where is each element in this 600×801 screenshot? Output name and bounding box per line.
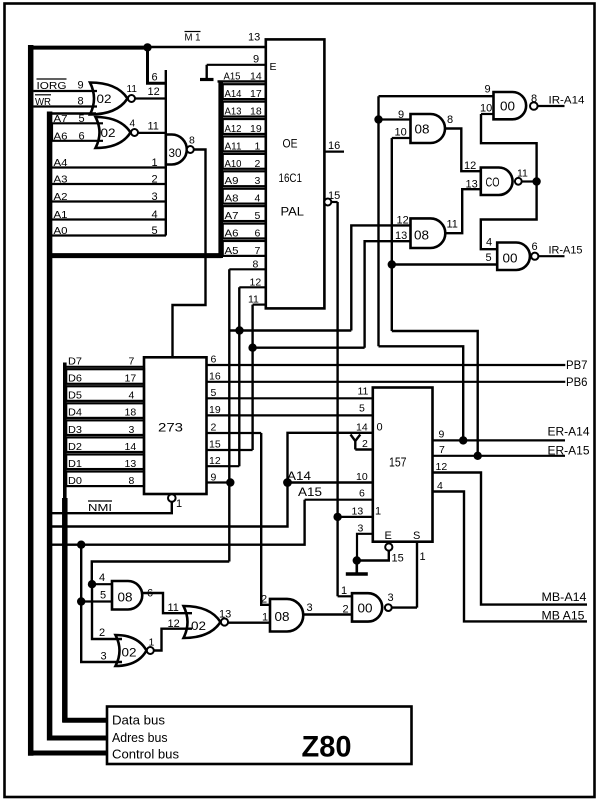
svg-text:A8: A8 (225, 193, 239, 205)
svg-text:9: 9 (253, 54, 259, 66)
wire net-B corner to 08c pin4 (92, 583, 113, 585)
svg-text:08: 08 (118, 590, 133, 605)
svg-text:16C1: 16C1 (279, 171, 303, 185)
wire A14 row to 157 pin10 (288, 481, 374, 483)
svg-text:A0: A0 (54, 225, 68, 237)
svg-text:1: 1 (375, 506, 381, 518)
svg-text:IR-A14: IR-A14 (549, 95, 585, 107)
ground tie on pin9 row (205, 65, 207, 79)
wire PAL11 east leg (253, 347, 365, 349)
wire 273 pin16 / PB6 line (207, 381, 566, 383)
svg-text:9: 9 (78, 80, 84, 92)
wire D7 row line (65, 366, 144, 368)
svg-text:4: 4 (152, 209, 158, 221)
svg-text:02: 02 (122, 646, 137, 660)
svg-text:ER-A14: ER-A14 (548, 425, 590, 439)
ladder row A5 box (223, 241, 266, 256)
svg-text:OE: OE (283, 137, 298, 151)
svg-text:00: 00 (358, 601, 373, 616)
node A15 x 08c.5 junction (77, 541, 85, 549)
wire A7 row top (48, 112, 97, 114)
svg-text:5: 5 (359, 403, 365, 415)
wire 273 pin2 row (207, 432, 262, 434)
svg-text:02: 02 (97, 92, 112, 106)
wire A15 net down to 02c pin3 (81, 602, 122, 663)
svg-text:9: 9 (211, 472, 217, 484)
wire PAL12 vertical (238, 287, 240, 466)
svg-text:10: 10 (356, 471, 368, 483)
svg-text:D7: D7 (68, 356, 82, 368)
wire A0 row (48, 234, 167, 236)
svg-text:08: 08 (414, 228, 429, 243)
nand-gate 00d MB (352, 593, 382, 621)
wire A7A6 left edge (51, 123, 53, 141)
wire 157 pin14 row (288, 433, 374, 483)
and-gate 08b (411, 218, 446, 248)
wire E bubble drop (357, 551, 389, 561)
nor-gate 02d (184, 606, 221, 638)
svg-text:12: 12 (148, 86, 160, 98)
bubble 30 output (187, 146, 194, 153)
svg-text:E: E (385, 530, 392, 542)
svg-text:8: 8 (78, 96, 84, 108)
wire adres-bus vertical (47, 112, 53, 741)
wire 273 pin5 to 157 pin11 (207, 397, 374, 399)
wire PAL pin 8 row (229, 268, 266, 270)
svg-text:D2: D2 (68, 441, 82, 453)
svg-text:273: 273 (158, 421, 183, 435)
svg-text:6: 6 (211, 354, 217, 366)
svg-text:M 1: M 1 (185, 32, 201, 44)
wire 02a output (135, 97, 166, 99)
svg-text:15: 15 (392, 553, 404, 565)
svg-text:12: 12 (436, 461, 448, 473)
svg-text:A13: A13 (225, 106, 242, 118)
bubble 02d output (221, 618, 228, 625)
svg-text:2: 2 (99, 627, 105, 639)
svg-text:18: 18 (125, 407, 137, 419)
wire 273 pin6 / PB7 line (207, 364, 566, 366)
node M1 junction (143, 43, 151, 51)
svg-text:A14: A14 (225, 88, 242, 100)
svg-text:11: 11 (148, 121, 159, 133)
wire net9 top horizontal (379, 95, 495, 97)
svg-text:157: 157 (389, 456, 407, 470)
svg-text:4: 4 (486, 237, 492, 249)
wire 157 pin13 row (338, 516, 373, 518)
ladder row A12 box (223, 119, 266, 134)
svg-text:A9: A9 (225, 175, 239, 187)
svg-text:8: 8 (447, 114, 453, 126)
ladder row A8 box (223, 189, 266, 204)
svg-text:9: 9 (439, 429, 445, 441)
svg-text:6: 6 (79, 131, 85, 143)
svg-text:PAL: PAL (281, 205, 305, 219)
wire PAL pin 11 row (253, 304, 267, 306)
wire PAL11 riser to 08b pin13 (365, 241, 411, 348)
svg-text:PB6: PB6 (566, 377, 588, 389)
svg-text:9: 9 (398, 109, 404, 121)
svg-text:1: 1 (255, 140, 261, 152)
svg-text:A12: A12 (225, 123, 242, 135)
node net-B x PAL12 junction (235, 326, 243, 334)
wire WR row (33, 105, 97, 107)
svg-text:3: 3 (388, 592, 394, 604)
svg-text:IORG: IORG (37, 80, 67, 92)
wire net10 vertical (391, 138, 393, 331)
wire A15 row to 157 pin6 (305, 499, 373, 501)
wire A3 row (48, 183, 167, 185)
svg-text:11: 11 (248, 294, 259, 306)
svg-text:2: 2 (343, 604, 349, 616)
nor-gate 02a (IORG,WR) (90, 83, 128, 115)
wire PAL pin 12 row (239, 286, 266, 288)
svg-text:4: 4 (437, 480, 443, 492)
svg-text:D3: D3 (68, 424, 82, 436)
ladder row A10 box (223, 154, 266, 169)
bubble 00e output (531, 253, 538, 260)
svg-text:0: 0 (377, 422, 383, 434)
wire net-B riser to 08a pin12 (351, 225, 410, 330)
wire 02c out to 02d pin12 (154, 629, 192, 651)
svg-text:12: 12 (464, 160, 476, 172)
wire 157 pin4 to MB-A15 (433, 492, 588, 622)
svg-text:8: 8 (189, 135, 195, 147)
wire ER-A15 line (433, 455, 566, 457)
label WR overline (35, 94, 51, 96)
ladder row A7 box (223, 206, 266, 221)
wire CO out to 00e pin4 (481, 182, 537, 250)
svg-text:4: 4 (255, 193, 261, 205)
wire A2 row (48, 200, 167, 202)
273 box (144, 357, 207, 494)
wire PAL11 vertical (251, 305, 253, 450)
nand-gate 00c top (494, 92, 527, 119)
svg-text:5: 5 (100, 590, 106, 602)
svg-text:14: 14 (356, 422, 368, 434)
wire A15 west leg (48, 500, 305, 545)
wire A1 row (48, 218, 167, 220)
svg-text:A1: A1 (54, 209, 68, 221)
node 273 pin9 junction (226, 478, 234, 486)
svg-text:14: 14 (250, 71, 262, 83)
nand-gate CO middle (481, 168, 513, 196)
PAL 16C1 box (266, 39, 325, 308)
bubble 02a output (128, 95, 135, 102)
D row D4 box (66, 403, 144, 418)
svg-text:12: 12 (250, 277, 262, 289)
svg-text:11: 11 (127, 84, 138, 95)
svg-text:IR-A15: IR-A15 (549, 245, 583, 257)
ladder row A14 box (223, 84, 266, 99)
wire 30 output to 273 clock (173, 150, 206, 359)
wire 08c out to 02d pin11 (143, 593, 193, 613)
svg-text:30: 30 (169, 146, 182, 160)
wire 273 pin15 row (207, 449, 253, 451)
node PAL11 junction (248, 344, 256, 352)
wire A6 row (52, 140, 103, 142)
wire M1 thick segment (28, 46, 148, 50)
svg-text:00: 00 (500, 99, 515, 114)
wire 08a output to CO pin12 (445, 129, 481, 172)
svg-text:ER-A15: ER-A15 (548, 444, 590, 458)
wire net-B horizontal (229, 329, 351, 331)
157 box (373, 388, 433, 542)
svg-text:7: 7 (129, 356, 135, 368)
wire adres-bus thick horizontal (47, 253, 221, 258)
nand-gate 00e bottom (497, 243, 530, 271)
wire 08b output to CO pin13 (445, 189, 481, 233)
svg-text:17: 17 (125, 373, 137, 385)
and-gate 08a (411, 114, 446, 143)
wire 00c pin10 row (481, 113, 494, 115)
svg-text:A6: A6 (54, 131, 68, 143)
node net10 x 00e.5 junction (388, 260, 396, 268)
svg-text:3: 3 (152, 191, 158, 203)
wire A15 row line (218, 80, 267, 82)
svg-text:19: 19 (250, 123, 262, 135)
ladder thick bar (218, 81, 223, 258)
svg-text:A15: A15 (298, 485, 322, 499)
svg-text:6: 6 (359, 488, 365, 500)
svg-text:3: 3 (307, 602, 313, 614)
svg-text:2: 2 (211, 422, 217, 434)
wire net9 vertical (377, 96, 379, 346)
wire net-B down to 02c pin2 (92, 584, 122, 639)
svg-text:NMI: NMI (88, 502, 112, 514)
svg-text:3: 3 (358, 523, 364, 535)
svg-text:D1: D1 (68, 458, 82, 470)
svg-text:1: 1 (149, 637, 155, 649)
label M1 overline (185, 31, 201, 33)
node ER-A15 junction (474, 452, 482, 460)
svg-text:8: 8 (253, 259, 259, 271)
svg-text:2: 2 (255, 158, 261, 170)
svg-text:9: 9 (485, 84, 491, 96)
svg-text:08: 08 (415, 122, 430, 137)
ladder row A11 box (223, 136, 266, 151)
node 08c pin5 junction (77, 597, 85, 605)
wire adres-bus to Z80 stub (47, 736, 108, 741)
D row D6 box (66, 369, 144, 384)
svg-text:12: 12 (168, 618, 180, 630)
svg-text:Control bus: Control bus (112, 747, 179, 762)
symbol Y tie pin2 (351, 435, 361, 450)
svg-text:D4: D4 (68, 407, 82, 419)
svg-text:10: 10 (395, 127, 407, 139)
D row D3 box (66, 420, 144, 435)
bubble PAL pin 15 (324, 199, 331, 206)
node ground junction 157 (353, 556, 361, 564)
node 08c pin4 junction (88, 580, 96, 588)
D row D0 box (66, 472, 144, 487)
wire ER-A14 line (433, 439, 566, 441)
wire M1 to PAL pin 13 (146, 46, 267, 48)
svg-text:16: 16 (328, 140, 340, 152)
svg-text:12: 12 (397, 215, 409, 227)
svg-text:E: E (270, 61, 277, 73)
svg-text:A5: A5 (225, 245, 239, 257)
wire net10 east leg (392, 331, 478, 456)
D row D5 box (66, 386, 144, 401)
wire 08a pin9 row (379, 118, 412, 120)
wire 00e pin5 row (392, 263, 498, 265)
svg-text:00: 00 (503, 251, 518, 266)
wire 273 pin9 row (207, 481, 231, 483)
svg-text:D0: D0 (68, 475, 82, 487)
svg-text:5: 5 (152, 225, 158, 237)
svg-text:15: 15 (209, 439, 221, 451)
label NMI overline (88, 500, 112, 502)
svg-text:14: 14 (125, 441, 137, 453)
svg-text:1: 1 (420, 551, 426, 563)
label IORG overline (37, 78, 67, 80)
svg-text:8: 8 (531, 93, 537, 105)
svg-text:Data bus: Data bus (112, 713, 165, 728)
svg-text:13: 13 (352, 506, 364, 518)
svg-text:4: 4 (99, 572, 105, 584)
wire IR-A15 stub (539, 255, 565, 257)
wire M1 branch down (148, 47, 167, 83)
svg-text:2: 2 (362, 438, 368, 450)
wire A14 west leg (48, 483, 288, 527)
svg-text:A7: A7 (54, 113, 68, 125)
svg-text:1: 1 (262, 612, 268, 624)
svg-text:Z80: Z80 (302, 731, 352, 764)
svg-text:3: 3 (101, 651, 107, 663)
wire 08c pin5 row (81, 600, 112, 602)
svg-text:WR: WR (35, 96, 51, 108)
wire 08a pin10 row (392, 137, 411, 139)
svg-text:A6: A6 (225, 227, 239, 239)
nor-gate 02b (A7,A6) (96, 117, 131, 148)
wire A4 row (48, 166, 167, 168)
svg-text:12: 12 (209, 455, 221, 467)
svg-text:5: 5 (211, 387, 217, 399)
svg-text:11: 11 (447, 219, 458, 231)
svg-text:A4: A4 (54, 157, 68, 169)
bubble 02b output (131, 129, 138, 136)
wire PAL pin 16 stub (324, 151, 344, 153)
svg-text:1: 1 (176, 498, 182, 510)
ladder row A9 box (223, 171, 266, 186)
svg-text:5: 5 (255, 210, 261, 222)
node net9 x 08a.9 junction (374, 115, 382, 123)
nand-gate 30 (166, 135, 187, 165)
svg-text:4: 4 (130, 119, 136, 130)
svg-text:Adres bus: Adres bus (112, 730, 168, 745)
wire 157 pin12 to MB-A14 (433, 473, 588, 605)
svg-text:16: 16 (209, 371, 221, 383)
D row D1 box (66, 454, 144, 469)
D row D2 box (66, 437, 144, 452)
svg-text:A11: A11 (225, 140, 242, 152)
wire 157 pin3 row (357, 534, 373, 561)
wire 08d out to 00d pin2 (302, 613, 353, 615)
wire 273 pin2 south vertical (261, 433, 270, 605)
ladder row A13 box (223, 102, 266, 117)
wire PAL15 to 00d pin1 (338, 595, 352, 597)
svg-text:S: S (413, 530, 420, 542)
and-gate 08c (112, 581, 142, 610)
wire net9 east leg (379, 346, 464, 440)
wire 157 pin2 row (355, 448, 373, 451)
svg-text:D5: D5 (68, 390, 82, 402)
svg-text:10: 10 (480, 103, 492, 115)
svg-text:13: 13 (248, 32, 260, 44)
wire data-bus to Z80 stub (63, 718, 109, 723)
nor-gate 02c (116, 635, 147, 666)
bubble 273 clock NMI (168, 494, 176, 502)
wire PAL pin 9 row (207, 64, 267, 66)
wire 00d out to 157 S (392, 606, 417, 608)
Z80 CPU box (107, 707, 412, 765)
node CO output junction (532, 177, 540, 185)
wire net-B vertical (228, 269, 230, 561)
wire PAL15 to vertical (331, 201, 337, 203)
wire control-bus vertical (28, 45, 34, 756)
bubble 00d output (385, 604, 392, 611)
svg-text:13: 13 (125, 458, 137, 470)
svg-text:18: 18 (250, 106, 262, 118)
wire 273 pin19 to 157 pin5 (207, 414, 374, 416)
wire A15 net down to 08c pin5 (80, 545, 82, 602)
svg-text:13: 13 (219, 609, 231, 621)
svg-text:4: 4 (129, 390, 135, 402)
wire 157 S input (416, 542, 418, 608)
svg-text:6: 6 (255, 227, 261, 239)
svg-text:11: 11 (517, 168, 528, 180)
svg-text:A3: A3 (54, 174, 68, 186)
and-gate 08d (270, 599, 303, 632)
svg-text:02: 02 (191, 619, 206, 633)
wire NAND30 input manifold (165, 70, 167, 236)
svg-text:3: 3 (255, 175, 261, 187)
svg-text:7: 7 (439, 444, 445, 456)
svg-text:7: 7 (255, 245, 261, 257)
svg-text:CO: CO (486, 176, 500, 190)
wire 02b output (138, 132, 166, 134)
node PAL15 x 157.13 junction (333, 513, 341, 521)
svg-text:A15: A15 (224, 71, 241, 83)
wire IR-A14 stub (538, 105, 565, 107)
wire 273 pin12 row (207, 465, 240, 467)
svg-text:02: 02 (101, 126, 116, 140)
svg-text:2: 2 (261, 594, 267, 606)
svg-text:A14: A14 (287, 469, 311, 483)
svg-text:11: 11 (168, 602, 179, 614)
svg-text:1: 1 (341, 585, 347, 597)
bubble 02c output (147, 647, 154, 654)
svg-text:08: 08 (275, 609, 290, 624)
svg-text:D6: D6 (68, 373, 82, 385)
wire IORG row (33, 90, 97, 92)
node A14 junction (283, 478, 292, 487)
svg-text:PB7: PB7 (566, 360, 588, 372)
svg-text:13: 13 (395, 230, 407, 242)
wire data-bus vertical (63, 363, 67, 501)
svg-text:8: 8 (129, 475, 135, 487)
svg-text:5: 5 (79, 113, 85, 125)
bubble 157 E (385, 543, 392, 550)
wire control-bus to Z80 stub (28, 751, 108, 756)
wire CO out to 00c pin10 (481, 114, 537, 182)
svg-text:A7: A7 (225, 210, 239, 222)
svg-text:6: 6 (532, 241, 538, 253)
svg-text:MB-A14: MB-A14 (542, 590, 587, 604)
svg-text:6: 6 (152, 72, 158, 84)
ground symbol (355, 561, 358, 574)
